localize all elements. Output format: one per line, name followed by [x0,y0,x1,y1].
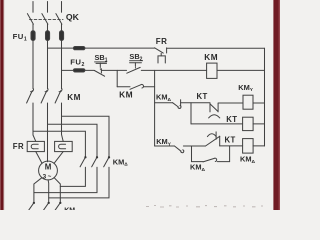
paper background [0,0,280,210]
SB2 actuator dotted link [134,67,136,69]
contactor KM main pole1 blade [27,91,33,103]
svg-text:KT: KT [226,115,237,124]
svg-text:FR: FR [156,37,168,46]
wire L1 supply top [32,2,34,13]
contactor KM-star pole2 blade [43,203,48,210]
control rail row1 from phase2 tap to FR [48,47,74,49]
contact KM-delta NC bar row3 [180,100,182,106]
SB1 underline [94,61,107,63]
pushbutton SB1 blade [94,71,104,77]
wire FR box1 to motor [36,152,42,164]
motor lead V2 [47,180,50,203]
row5 wire from left rail [155,145,175,147]
wire L3 supply top [61,2,63,13]
contactor KM main pole2 blade [41,91,47,103]
contactor KM-delta pole B lower wire to motor lead [34,167,97,192]
wire phase1 fuse to KM contact [32,41,34,89]
row4 drop from row3 [190,103,192,124]
contactor KM main pole3 blade [55,91,61,103]
wire KT coil to right rail [253,123,264,125]
motor M circle [39,161,58,180]
contactor KM-delta pole A blade [80,158,85,167]
FR heater 2 inner element [59,144,66,149]
fuse FU2 lower [73,69,85,72]
pushbutton SB2 actuator stem [134,63,136,66]
KM aux branch wire right [144,86,155,88]
row6 wire right [217,161,229,163]
svg-text:FR: FR [13,142,24,151]
row4 wire to KT coil [191,123,243,125]
fuse FU1 phase2 [46,31,50,41]
motor lead W2 [54,178,60,203]
wire phase3 below KM [62,103,64,141]
SB1 actuator dotted link [99,68,101,70]
contactor KM main pole3 arc [59,89,62,92]
contactor KM-delta pole A dot [84,156,86,158]
FR contact fixed bar [166,48,168,53]
wire phase3 fuse to KM contact [61,41,63,89]
wire pole2 to fuse [47,24,49,31]
svg-text:QK: QK [66,12,80,22]
coil KM rectangle [207,63,217,78]
control row2 from phase3 tap [62,69,74,71]
contact KM-star NC hook row5 [181,150,184,153]
thermal relay FR heater box 2 [55,141,73,151]
contactor KM-star pole1 dot [33,202,35,204]
right rail [264,48,266,146]
wire FU2 lower to SB1 [85,69,94,71]
left rail [154,70,156,146]
contactor KM-delta pole C lower wire to motor lead [49,167,109,198]
QK mechanical link dashed [30,19,64,21]
wire pole1 to fuse [32,24,34,31]
contactor KM-star pole2 dot [48,202,50,204]
row3 wire after KT contact [218,102,243,104]
wire pole3 to fuse [61,24,63,31]
delta tap wire phase3 to column C [62,116,110,156]
FR contact actuator stem [160,53,162,56]
contactor KM-star pole1 blade [29,203,34,210]
coil KM-star rectangle [243,95,253,109]
contactor KM-delta pole B dot [96,156,98,158]
thermal relay FR heater box 1 [27,141,44,151]
contactor KM-delta pole B blade [92,158,97,167]
KT on-delay arch [209,115,220,118]
KT on-delay contact left bar [209,103,211,112]
SB2 underline [129,60,143,62]
contactor KM-delta pole A lower wire to motor lead [60,167,85,186]
knife switch QK pole 3 blade [56,14,62,25]
wire KM-star coil to right rail [253,102,265,104]
contact KM-delta NC blade row3 [173,103,179,107]
row3 wire from left rail [155,102,173,104]
fuse FU2 upper [73,47,85,50]
KT on-delay contact right bar [217,103,219,112]
wire phase2 fuse to KM contact [47,41,49,89]
thermal relay FR contact blade [155,48,164,53]
contact KM-delta aux blade row6 [203,158,214,162]
pushbutton SB1 actuator stem [99,63,101,66]
row6 riser left [191,146,193,162]
KM aux branch wire left [117,86,130,88]
knife switch QK pole 2 blade [42,14,48,25]
svg-text:KT: KT [197,92,208,101]
motor lead U2 [34,178,42,203]
contactor KM main pole2 arc [45,89,48,92]
wire FR box2 to motor [54,152,63,164]
svg-text:KM: KM [204,53,218,62]
svg-text:3~: 3~ [43,174,53,181]
FR contact hook symbol [158,56,165,63]
wire KM coil to right rail [217,69,265,71]
row5 wire to KT contact [183,145,205,147]
row3 wire to KT contact [181,102,210,104]
KT on-delay contact blade [210,104,218,111]
delta tap wire phase2 to column B [48,124,98,156]
svg-text:M: M [45,163,52,172]
contact KM-star NC blade row5 [175,146,182,151]
contact KM aux hook [141,84,143,88]
pushbutton SB2 actuator bar [130,62,142,64]
pushbutton SB2 blade [127,67,140,73]
row5 wire to KM-delta coil [220,145,243,147]
contactor KM main pole1 arc [31,89,34,92]
fuse FU1 phase3 [60,31,64,41]
delta tap wire phase1 to column A [33,131,85,156]
faint cut-off caption text bottom edge [146,206,263,208]
KT off-delay blade row5 [206,136,220,146]
KM aux branch left drop [116,70,118,86]
right border outer light edge [279,0,280,210]
wire SB1 to SB2 [101,69,126,71]
left maroon border [0,0,2,210]
right maroon border [273,0,280,210]
wire KM-delta coil to right rail [253,145,264,147]
svg-text:KM: KM [67,93,81,102]
contactor KM-delta pole C dot [108,156,110,158]
wire FU2 upper to FR contact [85,47,154,49]
KT off-delay drop row5 [219,136,221,146]
FR heater 1 inner element [31,144,38,149]
coil KM-delta rectangle [243,139,254,154]
svg-text:KT: KT [225,135,236,144]
wire phase1 below KM [33,103,36,141]
pushbutton SB1 actuator bar [96,62,107,64]
contact KM-delta NC hook row3 [178,106,181,109]
knife switch QK pole 1 blade [27,14,33,25]
contactor KM-star pole3 dot [59,202,61,204]
contact KM-delta aux hook row6 [215,158,217,161]
contactor KM-delta pole C blade [104,158,109,167]
row6 riser right [229,146,231,162]
KT off-delay arch row5 [207,134,216,137]
wire FR to right rail [167,47,265,49]
wire phase2 below KM to motor [47,103,49,162]
fuse FU1 phase1 [31,31,35,41]
row6 wire left [192,161,204,163]
pushbutton SB1 fixed bar [100,69,102,73]
wire SB2 to KM coil [141,69,206,71]
svg-text:KM: KM [119,89,133,99]
coil KT rectangle [243,117,254,130]
contactor KM-star pole3 blade [55,203,60,210]
wire L2 supply top [47,2,49,13]
contact KM aux blade [130,85,141,90]
KT off-delay bar row5 [215,132,217,139]
